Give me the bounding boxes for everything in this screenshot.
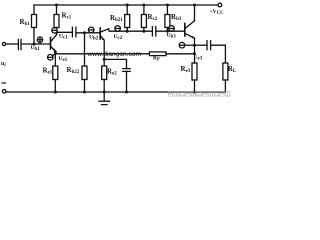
- wire Q3 collector to rail: [194, 5, 196, 21]
- transistor Q1: [51, 35, 57, 52]
- svg-text:Uc1: Uc1: [59, 34, 68, 41]
- node rail Re3: [193, 91, 196, 94]
- svg-text:Rb22: Rb22: [67, 66, 80, 75]
- wire bottom ground rail: [6, 91, 225, 93]
- svg-text:Ue1: Ue1: [59, 56, 68, 63]
- node base Q1 / Rb1: [33, 43, 36, 46]
- wire Rb22 vertical: [84, 33, 86, 66]
- node Ue1 indicator: [48, 54, 56, 60]
- svg-text:Rb3: Rb3: [171, 13, 182, 22]
- wire top +Vcc rail: [34, 4, 218, 6]
- node Uc2 indicator: [115, 26, 121, 32]
- svg-text:Ub1: Ub1: [31, 45, 41, 52]
- node Q2 emitter bypass tap: [103, 58, 106, 61]
- resistor Re1: [53, 66, 58, 92]
- node top of Rc2: [142, 4, 145, 7]
- node top of Rb21: [126, 4, 129, 7]
- terminal input top: [2, 42, 5, 45]
- node Rb3 bottom: [166, 30, 169, 33]
- svg-text:RF: RF: [153, 56, 160, 63]
- node top of Rc1: [55, 4, 58, 7]
- resistor RF: [149, 52, 194, 56]
- svg-text:Re3: Re3: [181, 65, 191, 74]
- resistor RL: [223, 63, 228, 92]
- node rail Re1: [54, 91, 57, 94]
- wire collector to C2: [57, 31, 73, 33]
- wire input to C1: [6, 43, 19, 45]
- wire Q2 collector elbow: [109, 29, 153, 31]
- capacitor Ce2: [123, 69, 130, 92]
- node Rc2 bottom: [142, 30, 145, 33]
- resistor Rb1: [32, 5, 37, 44]
- wire Q2 emitter down: [103, 40, 105, 66]
- capacitor C3: [152, 27, 155, 36]
- svg-text:RL: RL: [228, 65, 237, 74]
- resistor Rb21: [125, 5, 130, 31]
- resistor Rb3: [165, 5, 170, 31]
- wire C1 to Q1 base: [21, 43, 51, 45]
- svg-text:Rb21: Rb21: [110, 14, 123, 23]
- node Q2 base / Rb22: [83, 31, 86, 34]
- node Q1 emitter: [54, 51, 57, 54]
- node Ub1 indicator: [37, 37, 42, 44]
- wire Q3 emitter down: [194, 38, 196, 63]
- svg-text:Rc1: Rc1: [62, 12, 72, 21]
- svg-text:Rc2: Rc2: [148, 13, 158, 22]
- resistor Re3: [192, 63, 197, 92]
- capacitor C4: [207, 41, 211, 50]
- svg-text:Rb1: Rb1: [20, 18, 31, 27]
- transistor Q3: [185, 21, 195, 39]
- ground: [99, 92, 110, 105]
- node top of Q3 collector: [193, 4, 196, 7]
- node Ub2 indicator: [88, 27, 94, 33]
- svg-text:Ue3: Ue3: [194, 55, 203, 62]
- svg-text:Ub3: Ub3: [167, 33, 177, 40]
- capacitor C2: [72, 27, 76, 37]
- wire to Ce2: [104, 59, 126, 68]
- capacitor C1: [18, 40, 21, 50]
- node Ue3 indicator: [179, 42, 194, 48]
- node rail Rb22: [83, 91, 86, 94]
- wire C4 to RL: [211, 45, 226, 63]
- wire feedback line to RF: [55, 53, 149, 55]
- wire C3 to Q3 base: [156, 30, 185, 32]
- transistor Q2: [100, 28, 108, 41]
- node top of Rb3: [166, 4, 169, 7]
- wire C2 to Q2 base: [76, 32, 100, 34]
- node rail Re2: [103, 91, 106, 94]
- node Ub3 indicator: [169, 26, 175, 32]
- wire Q1 collector up: [56, 32, 58, 35]
- terminal input bottom: [2, 90, 6, 94]
- svg-text:Re2: Re2: [107, 68, 117, 77]
- resistor Rb22: [82, 66, 87, 92]
- resistor Re2: [102, 66, 107, 92]
- svg-text:Uc2: Uc2: [114, 34, 123, 41]
- node Ue3 / RF tap: [193, 52, 196, 55]
- resistor Rc1: [54, 5, 59, 32]
- svg-text:Ub2: Ub2: [89, 34, 99, 41]
- node rail Ce2: [125, 91, 128, 94]
- minus mark: [2, 82, 5, 84]
- node output tap: [193, 44, 196, 47]
- wire output to C4: [195, 44, 208, 46]
- svg-text:+VCC: +VCC: [210, 9, 225, 16]
- svg-text:ui: ui: [1, 61, 6, 68]
- svg-text:www.diangon.com: www.diangon.com: [87, 51, 142, 58]
- gray watermark: [169, 92, 230, 97]
- resistor Rc2: [141, 5, 146, 31]
- wire Q1 emitter down: [54, 51, 56, 66]
- terminal +Vcc: [218, 3, 222, 7]
- node Rb21 bottom: [126, 30, 129, 33]
- node Uc1 indicator: [52, 28, 57, 33]
- svg-text:Re1: Re1: [43, 67, 53, 76]
- node Q1 collector: [55, 31, 58, 34]
